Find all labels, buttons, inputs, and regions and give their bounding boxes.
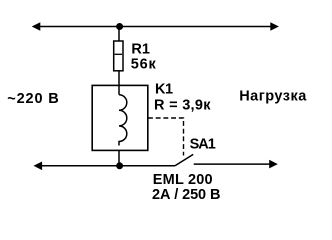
wire resistor top lead [118, 27, 120, 42]
arrowhead bottom right [269, 160, 278, 169]
node junction top [116, 23, 123, 30]
svg-text:K1: K1 [155, 82, 173, 98]
wire bottom bus left [36, 165, 175, 167]
wire resistor bottom lead [118, 71, 120, 95]
svg-text:56к: 56к [131, 56, 157, 72]
svg-text:SA1: SA1 [190, 136, 216, 152]
wire bottom bus right [194, 163, 276, 165]
arrowhead top left [32, 22, 41, 31]
svg-text:EML 200: EML 200 [153, 172, 213, 188]
switch SA1 lever [175, 154, 193, 165]
wire top bus [34, 26, 276, 28]
arrowhead top right [270, 22, 279, 31]
relay K1 box [92, 85, 148, 150]
svg-text:R1: R1 [131, 41, 150, 57]
dashed mechanical link from K1 to SA1 [148, 118, 184, 156]
svg-text:Нагрузка: Нагрузка [239, 89, 307, 105]
relay K1 coil [119, 95, 127, 146]
node junction bottom [116, 162, 123, 169]
resistor R1 [114, 41, 123, 71]
arrowhead bottom left [34, 162, 43, 171]
svg-text:~220 В: ~220 В [7, 91, 59, 107]
svg-text:R = 3,9к: R = 3,9к [154, 98, 211, 114]
wire coil bottom lead [118, 150, 120, 165]
svg-text:2А / 250 В: 2А / 250 В [152, 187, 220, 203]
